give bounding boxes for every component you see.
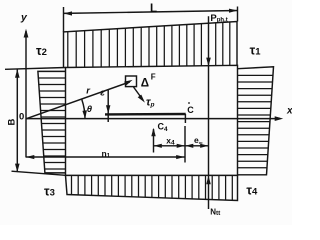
svg-text:n1: n1 <box>102 148 111 159</box>
P arrowhead down at top edge <box>206 58 211 67</box>
svg-text:0: 0 <box>19 111 24 122</box>
svg-text:F: F <box>151 73 156 82</box>
B dimension line <box>15 69 20 172</box>
left shear distribution tau2 outline <box>38 71 66 172</box>
svg-text:Δ: Δ <box>141 78 149 90</box>
svg-text:τp: τp <box>146 97 155 109</box>
svg-text:C: C <box>187 105 194 115</box>
y-axis <box>24 29 29 158</box>
N_tt arrowhead up at bottom edge <box>206 176 211 185</box>
svg-text:r: r <box>86 86 91 97</box>
svg-text:y: y <box>20 12 28 24</box>
e dimension line <box>185 144 209 148</box>
B dimension top extension line <box>5 68 66 70</box>
tick from chord end down to axis <box>184 114 186 123</box>
top shear distribution tau1 hatching <box>68 22 230 68</box>
top shear distribution tau1 outline <box>64 22 238 68</box>
element square dF <box>126 76 137 87</box>
svg-text:L: L <box>150 3 157 15</box>
tau_p arrow from square <box>134 87 145 103</box>
right shear distribution tau4 outline <box>238 67 274 175</box>
epsilon drop line with down arrow <box>106 89 110 122</box>
n1 dimension line <box>26 155 185 159</box>
svg-text:C4: C4 <box>158 122 169 134</box>
dot above C <box>188 102 190 104</box>
theta angle arc with arrow <box>82 100 87 119</box>
left shear distribution tau2 hatching <box>38 78 65 169</box>
L dimension line <box>64 9 238 16</box>
radius line r with arrowhead into square <box>26 80 133 119</box>
B dimension bottom extension line <box>12 171 66 175</box>
svg-text:θ: θ <box>87 104 93 115</box>
svg-text:B: B <box>7 118 18 125</box>
x4 dimension line <box>154 144 186 148</box>
svg-text:e∞: e∞ <box>194 135 203 146</box>
thick chord line to C <box>105 113 186 116</box>
C extension line <box>184 126 186 163</box>
svg-text:x4: x4 <box>166 135 175 146</box>
main body rectangle <box>66 65 238 175</box>
svg-text:Ntt: Ntt <box>210 207 221 217</box>
svg-text:τ3: τ3 <box>44 185 55 199</box>
x-axis <box>26 116 283 121</box>
svg-text:τ1: τ1 <box>250 43 262 57</box>
right shear distribution tau4 hatching <box>238 75 273 167</box>
L dimension extension line left <box>63 7 65 32</box>
svg-text:τ2: τ2 <box>36 44 47 58</box>
L dimension extension line right <box>237 7 239 22</box>
svg-text:Pph,t: Pph,t <box>210 13 227 24</box>
bottom shear distribution tau3 outline <box>66 175 238 200</box>
bottom shear distribution tau3 hatching <box>72 175 233 200</box>
svg-text:τ4: τ4 <box>246 184 258 198</box>
svg-text:x: x <box>286 106 292 117</box>
C4 point arrow <box>151 128 155 153</box>
svg-text:ε: ε <box>100 88 105 99</box>
force line P / N vertical <box>208 16 210 209</box>
